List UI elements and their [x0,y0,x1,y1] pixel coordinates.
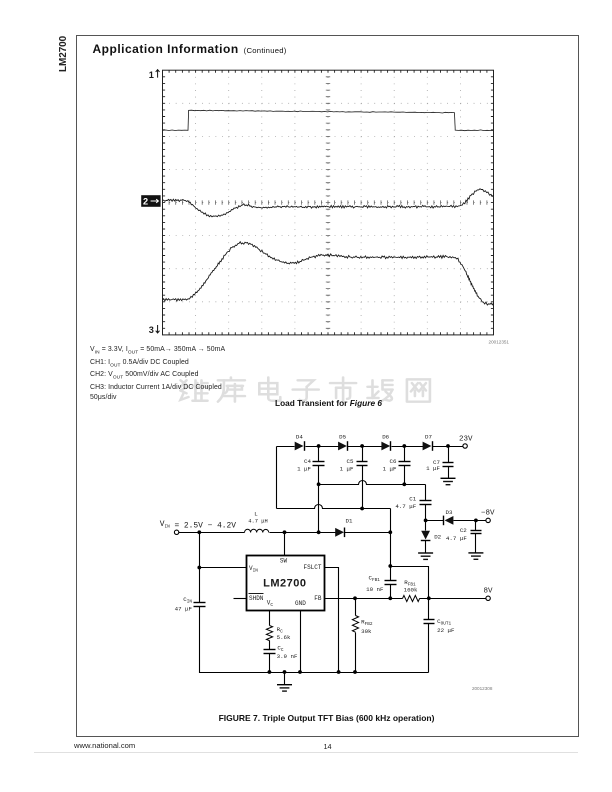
wire: negative pump node to D3 and D2 [426,520,444,522]
wire: RFB2 branch [355,599,357,673]
wire: COUT1 lead to ground rail [428,599,430,673]
svg-text:SHDN: SHDN [249,595,264,602]
svg-text:CC: CC [277,644,283,653]
svg-text:D7: D7 [425,434,432,441]
scope graticule dotted grid [163,70,494,335]
page frame box [76,35,579,737]
svg-text:C6: C6 [390,458,397,465]
svg-text:1: 1 [149,70,154,80]
svg-text:20012351: 20012351 [489,340,510,345]
diode D3 [444,509,454,525]
WATERMARK [176,376,438,411]
wire: C4 lead vertical SW rail to main SW line [318,447,320,462]
wire: C1 top lead from SW rail [425,485,427,521]
resistor RFB1 160k [403,579,420,602]
node dots on pump rails [317,482,321,486]
svg-text:10 nF: 10 nF [366,586,384,593]
svg-text:SW: SW [280,557,288,564]
node dots on ground rail [268,670,272,674]
scope center graticule lines with hash ticks [163,70,494,335]
capacitor CC 3.9nF [264,644,298,660]
wire: GND pin to ground rail [300,611,302,673]
diode D2 [421,531,442,541]
node dots on FB line [353,596,357,600]
svg-text:160k: 160k [404,587,418,594]
svg-text:20012308: 20012308 [472,686,493,691]
svg-text:4.7 μF: 4.7 μF [446,535,467,542]
section title [93,42,287,56]
capacitor C2 [446,527,482,542]
capacitor COUT1 22uF [424,618,456,634]
terminal -8V [481,509,495,522]
wire: CIN branch vertical [200,533,429,673]
wire: D4 anode vertical from 8V rail [276,447,278,509]
diode D1 [335,518,353,538]
wire: C7 lead and ground stem [448,447,450,463]
svg-text:5.6k: 5.6k [277,634,291,641]
svg-text:GND: GND [295,600,306,607]
node dot VIN pin junction [197,566,201,570]
wire: C2 lead and ground stem [475,521,477,553]
wire: chip ground symbol stem [284,673,286,685]
wire: C5 lead vertical [362,447,364,462]
diode D4 [295,434,305,451]
wire: SW pump rail (C4/C6 bottoms) with hop over C5 lead [319,481,426,485]
CH2 waveform (VOUT transient) [163,189,494,217]
svg-text:D6: D6 [382,434,389,441]
svg-text:CIN: CIN [183,596,192,605]
svg-text:D4: D4 [296,434,303,441]
svg-text:C1: C1 [409,495,416,502]
svg-text:1 μF: 1 μF [426,465,440,472]
svg-text:22 μF: 22 μF [437,627,455,634]
VIN label [160,520,237,531]
scope border with minor ticks [163,70,494,335]
wire: SHDN stub [234,598,247,600]
CH3 waveform (inductor current) [163,242,494,305]
wire: VIN pin [200,567,247,569]
svg-text:FSLCT: FSLCT [303,564,321,571]
resistor RC 5.6k [266,626,291,641]
svg-text:C2: C2 [460,527,467,534]
svg-text:RFB2: RFB2 [361,619,373,628]
wire: C6 lead vertical [404,447,406,462]
inductor L 4.7uH [245,511,269,533]
svg-text:4.7 μH: 4.7 μH [248,519,267,525]
svg-text:47 μF: 47 μF [175,606,193,613]
diode D7 [423,434,433,451]
capacitor C5 [340,458,368,473]
channel 1 marker [149,70,160,80]
svg-text:COUT1: COUT1 [437,618,451,627]
svg-text:8V: 8V [484,588,494,596]
wire: 8V node over to COUT1 [391,567,429,599]
channel 2 marker [141,195,160,207]
diode D5 [338,434,347,451]
svg-text:3.9 nF: 3.9 nF [277,653,298,660]
node dot negative pump [424,519,428,523]
scope annotation text [90,345,225,402]
svg-text:30k: 30k [361,628,372,635]
capacitor C7 [426,459,453,472]
capacitor C1 [395,495,431,510]
channel 3 marker [149,325,160,335]
node dots on 23V rail [317,444,321,448]
capacitor CFB1 10nF [366,574,396,593]
ground symbol main [277,685,292,691]
svg-text:D1: D1 [346,518,353,525]
node dots on VIN/SW line [197,530,201,534]
sidebar vertical part number [58,37,93,72]
terminal 23V [459,436,473,448]
wire: VIN input line through inductor to D1 [179,532,245,534]
figure caption [76,713,577,723]
wire: VC pin to compensation network [269,611,271,673]
svg-text:LM2700: LM2700 [263,578,306,590]
diode D6 [381,434,390,451]
resistor RFB2 30k [352,616,372,636]
wire: FSLCT to ground rail [325,568,339,673]
wire: 8V rail (D4 anode / C5 bottom / D1 cathode) with hop over C4 lead [277,505,391,509]
svg-text:3: 3 [149,325,154,335]
svg-text:C5: C5 [347,458,354,465]
ground for C7 [441,478,456,484]
svg-text:FB: FB [314,595,322,602]
ground for D2 [418,553,433,559]
terminal VIN [174,530,178,534]
capacitor CIN 47uF [175,596,206,613]
capacitor C6 [383,458,411,473]
svg-text:CFB1: CFB1 [369,574,381,583]
svg-text:−8V: −8V [481,509,495,517]
wire: D2 stem to ground [425,541,427,554]
svg-text:4.7 μF: 4.7 μF [395,503,416,510]
svg-text:1 μF: 1 μF [340,466,354,473]
svg-text:VIN = 2.5V − 4.2V: VIN = 2.5V − 4.2V [160,520,237,531]
svg-text:D5: D5 [339,434,346,441]
wire: FB line to 8V terminal [325,598,403,600]
wire: SW pin [284,533,286,556]
op-amp IC U1 LM2700 box [247,556,325,611]
wire: CFB1 branch [390,567,392,599]
wire: top 23V rail [277,446,295,448]
footer [74,741,135,750]
ground for C2 [468,553,483,559]
capacitor C4 [297,458,324,473]
svg-text:1 μF: 1 μF [383,466,397,473]
svg-text:C4: C4 [304,458,311,465]
svg-text:D2: D2 [434,533,441,540]
terminal 8V [484,588,494,601]
svg-text:2: 2 [143,197,148,207]
load transient caption [163,398,494,408]
wire: D1 cathode vertical (8V node down to FB network) [390,509,392,567]
svg-text:D3: D3 [446,509,453,516]
CH1 waveform (IOUT square wave) [163,110,494,131]
svg-text:23V: 23V [459,436,473,444]
svg-text:L: L [254,511,258,518]
svg-text:1 μF: 1 μF [297,466,311,473]
